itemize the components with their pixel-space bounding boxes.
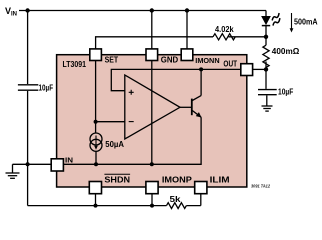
pin box SHDN xyxy=(89,182,101,194)
svg-text:SET: SET xyxy=(105,55,119,65)
wire: LED branch from top rail xyxy=(265,11,267,17)
node: 50uA / IN row xyxy=(94,162,98,166)
pin box OUT xyxy=(241,64,253,76)
IC body LT3091 xyxy=(57,55,247,187)
wire: LED to output node xyxy=(265,26,267,37)
wire: IMONN pin to top rail xyxy=(186,11,188,50)
pin box GND xyxy=(146,49,158,61)
pin box SET xyxy=(90,49,102,61)
internal wire: opamp out to base xyxy=(180,106,192,108)
current source arrow xyxy=(95,136,97,147)
wire: ILIM drop from bottom rail xyxy=(200,193,202,206)
transistor Q1 emitter diagonal xyxy=(192,111,201,118)
current source 50uA circles xyxy=(90,133,102,151)
svg-text:500mA: 500mA xyxy=(294,16,318,26)
transistor Q1 collector diagonal xyxy=(192,96,201,101)
pin box IN xyxy=(51,159,63,171)
svg-text:50µA: 50µA xyxy=(105,139,124,149)
wire: top rail VIN xyxy=(19,10,266,12)
LED light squiggles xyxy=(271,13,282,26)
wire: bottom rail xyxy=(28,205,201,207)
node: GND rail junction xyxy=(150,8,154,12)
node: IMONN rail junction xyxy=(185,8,189,12)
internal wire: SET vertical xyxy=(95,61,97,134)
internal wire: collector vertical xyxy=(200,69,202,95)
svg-text:LT3091: LT3091 xyxy=(63,59,87,69)
wire: node down to cap xyxy=(265,69,267,89)
svg-text:3091 TA12: 3091 TA12 xyxy=(251,183,270,188)
wire: IN row left (ground to IN pin) xyxy=(13,163,52,165)
resistor 4.02k xyxy=(213,34,235,40)
wire: GND pin to top rail xyxy=(151,11,153,50)
svg-text:IMONN: IMONN xyxy=(195,56,219,65)
arrow 500mA xyxy=(291,13,293,29)
wire: SET 4.02k row xyxy=(96,37,213,49)
svg-text:SHDN: SHDN xyxy=(104,174,130,184)
svg-text:OUT: OUT xyxy=(223,58,237,68)
node: VIN top rail / label stub xyxy=(25,8,29,12)
wire: into 400m resistor xyxy=(265,37,267,45)
wire: 4.02k to output node xyxy=(229,36,267,38)
transistor Q1 base bar xyxy=(191,99,193,116)
capacitor C-left 10uF plates xyxy=(18,85,38,90)
internal wire: plus input feedback xyxy=(111,69,240,90)
op-amp minus sign xyxy=(129,121,134,123)
node: LED / 4.02k / 400m junction xyxy=(264,35,268,39)
node: GND / IN row xyxy=(150,162,154,166)
LED D1 cathode bar xyxy=(262,25,270,27)
svg-text:4.02k: 4.02k xyxy=(215,24,234,34)
svg-text:10µF: 10µF xyxy=(39,82,54,92)
internal wire: minus input xyxy=(96,121,125,123)
node: OUT / cap junction xyxy=(264,67,268,71)
LED D1 triangle xyxy=(262,16,270,24)
node: IMONP/bottom rail xyxy=(150,204,154,208)
node: collector / OUT row xyxy=(199,67,203,71)
svg-text:IMONP: IMONP xyxy=(162,174,192,184)
internal wire: IN row xyxy=(64,117,202,164)
svg-text:IN: IN xyxy=(65,157,73,164)
resistor 400mohm xyxy=(263,45,269,67)
svg-text:GND: GND xyxy=(161,55,178,65)
wire: OUT pin to node xyxy=(253,68,266,70)
pin box IMONN xyxy=(181,49,193,61)
node: junction left branch / IN row xyxy=(26,162,30,166)
wire: cap to ground right xyxy=(266,95,268,105)
wire: 400m to OUT node xyxy=(265,62,267,70)
wire: IMONP drop xyxy=(151,193,153,206)
node: SHDN/bottom rail xyxy=(94,204,98,208)
transistor Q1 emitter arrowhead xyxy=(196,112,202,117)
svg-text:400mΩ: 400mΩ xyxy=(272,46,300,56)
wire: left VIN branch down (through cap position) xyxy=(27,11,29,85)
svg-text:5k: 5k xyxy=(170,194,181,204)
svg-text:ILIM: ILIM xyxy=(210,174,230,184)
wire: left branch below cap down to bottom rail xyxy=(27,91,29,206)
node: SET / minus input junction xyxy=(94,120,98,124)
ground left xyxy=(6,164,20,178)
pin box IMONP xyxy=(146,182,158,194)
pin box ILIM xyxy=(195,182,207,194)
internal wire: below current source to IN rail xyxy=(95,151,97,164)
wire: SHDN drop xyxy=(95,193,97,206)
internal wire: GND vertical through opamp xyxy=(151,61,153,165)
svg-text:10µF: 10µF xyxy=(278,87,293,97)
capacitor C-right 10uF plates xyxy=(258,90,277,95)
op-amp plus sign xyxy=(129,90,134,95)
ground right xyxy=(262,106,273,111)
op-amp U1 triangle xyxy=(125,75,180,139)
resistor 5k xyxy=(167,203,187,209)
